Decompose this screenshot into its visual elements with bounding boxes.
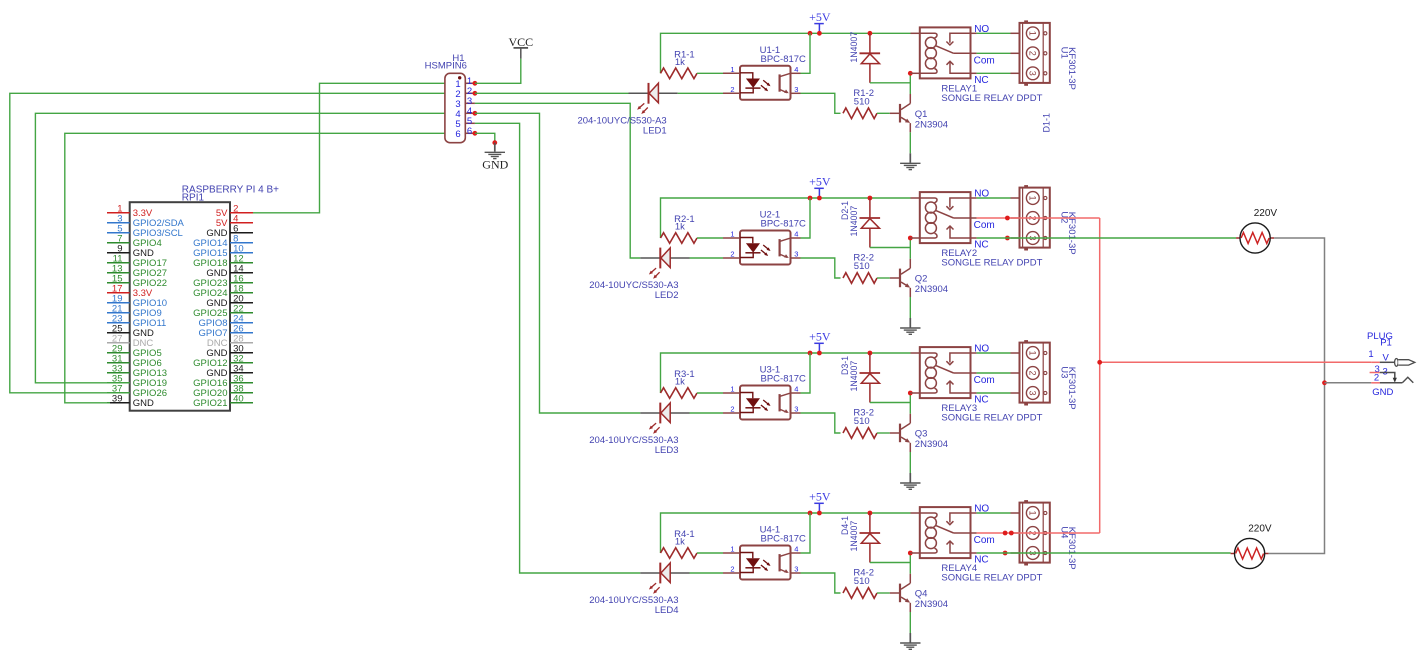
wire diode to collector xyxy=(870,402,910,404)
wire opto pin3 to R2 xyxy=(801,573,841,593)
wire relay NO to terminal xyxy=(977,512,1011,514)
svg-text:HSMPIN6: HSMPIN6 xyxy=(425,61,467,72)
junction +5V rail xyxy=(817,31,822,36)
svg-text:4: 4 xyxy=(794,230,798,239)
op-amp U3-1 BPC-817C optocoupler xyxy=(723,365,806,420)
diode 1N4007 1N4007 flyback xyxy=(849,32,880,83)
wire opto pin4 to rail xyxy=(801,198,811,238)
connector U3 KF301-3P xyxy=(1011,340,1078,409)
junction +5V rail xyxy=(817,511,822,516)
wire relay Com to terminal xyxy=(977,372,1011,374)
wire +5V rail channel 2 xyxy=(661,198,911,238)
wire emitter to ground xyxy=(909,132,911,153)
svg-text:LED3: LED3 xyxy=(655,445,679,456)
connector U1 KF301-3P xyxy=(1011,20,1078,89)
wire Com bus channel2 xyxy=(977,217,1100,219)
wire collector xyxy=(909,393,911,414)
svg-text:1k: 1k xyxy=(675,377,685,388)
svg-text:Com: Com xyxy=(974,535,995,546)
svg-text:NC: NC xyxy=(974,75,988,86)
junction Com terminal ch4 b xyxy=(1009,531,1014,536)
wire LED to opto pin2 xyxy=(690,412,724,414)
svg-text:Q3: Q3 xyxy=(915,429,928,440)
svg-text:6: 6 xyxy=(455,129,460,140)
transistor Q4 2N3904 xyxy=(890,574,948,612)
svg-text:40: 40 xyxy=(233,394,244,405)
LED LED3 204-10UYC/S530-A3 xyxy=(589,403,689,456)
svg-text:SONGLE RELAY DPDT: SONGLE RELAY DPDT xyxy=(941,573,1042,584)
svg-text:Q2: Q2 xyxy=(915,274,928,285)
svg-text:1k: 1k xyxy=(675,537,685,548)
wire opto pin4 to rail xyxy=(801,513,811,553)
wire Com bus channel4 xyxy=(977,532,1100,534)
svg-text:Com: Com xyxy=(974,220,995,231)
relay RELAY3 SONGLE RELAY DPDT xyxy=(910,347,1042,423)
ground GND under H1 xyxy=(482,143,508,172)
wire opto pin4 to rail xyxy=(801,33,811,73)
wire H1 pin3 to LED2 xyxy=(475,103,640,258)
svg-text:220V: 220V xyxy=(1254,208,1278,219)
junction H1 pin1 xyxy=(473,81,478,86)
svg-text:KF301-3P: KF301-3P xyxy=(1066,367,1077,410)
svg-text:SONGLE RELAY DPDT: SONGLE RELAY DPDT xyxy=(941,93,1042,104)
wire collector xyxy=(909,238,911,259)
power flag +5V channel 1 xyxy=(809,10,831,32)
svg-text:BPC-817C: BPC-817C xyxy=(761,534,807,545)
transistor Q1 2N3904 xyxy=(890,94,948,132)
svg-text:3: 3 xyxy=(794,250,798,259)
resistor R3-1 1k xyxy=(661,369,698,398)
connector H1 HSMPIN6 xyxy=(425,53,475,143)
svg-text:3: 3 xyxy=(1028,390,1038,395)
diode D3-1 1N4007 flyback xyxy=(840,353,880,403)
svg-text:KF301-3P: KF301-3P xyxy=(1066,47,1077,90)
wire load2 to gray bus xyxy=(1269,383,1325,554)
svg-text:LED4: LED4 xyxy=(655,605,679,616)
junction Com terminal ch2 a xyxy=(1005,216,1010,221)
wire R to opto pin1 xyxy=(697,552,723,554)
svg-text:2: 2 xyxy=(1028,370,1038,375)
wire LED to opto pin2 xyxy=(690,257,724,259)
svg-text:510: 510 xyxy=(854,416,870,427)
junction collector coil xyxy=(908,236,913,241)
lamp load 2 220V xyxy=(1231,523,1272,568)
wire opto pin3 to R2 xyxy=(801,413,841,433)
power flag +5V channel 3 xyxy=(809,330,831,352)
svg-text:P1: P1 xyxy=(1380,337,1392,348)
svg-text:1k: 1k xyxy=(675,57,685,68)
junction H1 GND xyxy=(492,140,497,145)
wire relay Com to terminal xyxy=(977,52,1011,54)
svg-text:GND: GND xyxy=(133,398,154,409)
svg-text:GND: GND xyxy=(1372,387,1393,398)
junction diode rail xyxy=(868,511,873,516)
wire H1 pin2 to LED1 xyxy=(475,92,629,94)
resistor R3-2 510 xyxy=(843,408,877,439)
svg-text:1N4007: 1N4007 xyxy=(849,361,859,392)
junction pin4 rail xyxy=(808,511,813,516)
svg-text:SONGLE RELAY DPDT: SONGLE RELAY DPDT xyxy=(941,258,1042,269)
wire opto pin3 to R2 xyxy=(801,93,841,113)
wire R to opto pin1 xyxy=(697,72,723,74)
wire R2 to base xyxy=(877,112,890,114)
wire collector xyxy=(909,73,911,94)
svg-text:SONGLE RELAY DPDT: SONGLE RELAY DPDT xyxy=(941,413,1042,424)
svg-text:RPI1: RPI1 xyxy=(182,193,205,204)
LED LED2 204-10UYC/S530-A3 xyxy=(589,248,689,301)
junction pin4 rail xyxy=(808,196,813,201)
wire emitter to ground xyxy=(909,297,911,318)
wire relay NC to terminal xyxy=(977,72,1011,74)
wire Com bus vertical xyxy=(1099,218,1101,533)
LED LED4 204-10UYC/S530-A3 xyxy=(589,563,689,616)
wire H1 pin4 to LED3 xyxy=(475,113,640,413)
svg-text:1N4007: 1N4007 xyxy=(849,32,859,63)
svg-text:BPC-817C: BPC-817C xyxy=(761,219,807,230)
junction +5V rail xyxy=(817,196,822,201)
svg-text:GPIO21: GPIO21 xyxy=(193,398,227,409)
svg-text:2: 2 xyxy=(730,250,734,259)
ground channel 2 xyxy=(900,318,920,334)
op-amp U4-1 BPC-817C optocoupler xyxy=(723,525,806,580)
relay RELAY4 SONGLE RELAY DPDT xyxy=(910,507,1042,583)
svg-text:Q1: Q1 xyxy=(915,109,928,120)
ground channel 3 xyxy=(900,473,920,489)
svg-text:NC: NC xyxy=(974,555,988,566)
junction diode rail xyxy=(868,31,873,36)
svg-text:LED1: LED1 xyxy=(643,125,667,136)
power flag VCC xyxy=(508,35,533,59)
svg-text:NC: NC xyxy=(974,240,988,251)
connector U2 KF301-3P xyxy=(1011,185,1078,254)
svg-text:3: 3 xyxy=(794,405,798,414)
wire opto pin4 to rail xyxy=(801,353,811,393)
wire H1 pin6 to GND xyxy=(475,133,495,142)
svg-text:BPC-817C: BPC-817C xyxy=(761,374,807,385)
svg-text:1: 1 xyxy=(1028,510,1038,515)
wire R to opto pin1 xyxy=(697,237,723,239)
transistor Q2 2N3904 xyxy=(890,259,948,297)
junction diode rail xyxy=(868,351,873,356)
wire diode to collector xyxy=(870,247,910,249)
wire R to opto pin1 xyxy=(697,392,723,394)
svg-text:2N3904: 2N3904 xyxy=(915,439,948,450)
wire emitter to ground xyxy=(909,452,911,473)
wire relay NC to terminal xyxy=(977,392,1011,394)
resistor R1-1 1k xyxy=(661,49,698,78)
svg-text:1: 1 xyxy=(730,385,734,394)
ground channel 4 xyxy=(900,633,920,649)
svg-text:3: 3 xyxy=(1028,71,1038,76)
svg-text:1: 1 xyxy=(1028,350,1038,355)
wire gray bus to plug xyxy=(1325,382,1372,384)
svg-text:BPC-817C: BPC-817C xyxy=(761,54,807,65)
connector plug P1 xyxy=(1367,331,1415,398)
svg-text:4: 4 xyxy=(794,385,798,394)
svg-text:Com: Com xyxy=(974,375,995,386)
wire LED to opto pin2 xyxy=(690,572,724,574)
svg-text:VCC: VCC xyxy=(508,35,533,49)
wire +5V rail channel 3 xyxy=(661,353,911,393)
svg-text:4: 4 xyxy=(794,65,798,74)
wire V bus to plug xyxy=(1100,361,1372,363)
svg-text:+5V: +5V xyxy=(809,10,831,24)
wire relay NO to terminal xyxy=(977,352,1011,354)
svg-text:1: 1 xyxy=(730,545,734,554)
wire emitter to ground xyxy=(909,612,911,633)
svg-text:1k: 1k xyxy=(675,222,685,233)
svg-text:1: 1 xyxy=(1368,349,1373,360)
resistor R4-1 1k xyxy=(661,529,698,558)
op-amp U1-1 BPC-817C optocoupler xyxy=(723,45,806,100)
wire H1 pin6 to RPI pin39 GND xyxy=(65,133,475,403)
junction pin4 rail xyxy=(808,351,813,356)
junction diode rail xyxy=(868,196,873,201)
resistor R4-2 510 xyxy=(843,568,877,599)
svg-text:1N4007: 1N4007 xyxy=(849,521,859,552)
wire H1 pin4 to RPI pin35 GPIO19 xyxy=(35,113,475,383)
wire H1 pin5 to LED4 xyxy=(475,123,640,573)
svg-text:1: 1 xyxy=(1028,195,1038,200)
svg-text:+5V: +5V xyxy=(809,175,831,189)
svg-text:2N3904: 2N3904 xyxy=(915,284,948,295)
wire opto pin3 to R2 xyxy=(801,258,841,278)
svg-text:+5V: +5V xyxy=(809,490,831,504)
diode D2-1 1N4007 flyback xyxy=(840,198,880,248)
connector U4 KF301-3P xyxy=(1011,500,1078,569)
junction collector coil xyxy=(908,551,913,556)
transistor Q3 2N3904 xyxy=(890,414,948,452)
svg-text:2N3904: 2N3904 xyxy=(915,599,948,610)
svg-text:1: 1 xyxy=(730,65,734,74)
svg-text:NC: NC xyxy=(974,395,988,406)
wire R2 to base xyxy=(877,592,890,594)
wire NC ch2 to load1 xyxy=(977,237,1237,239)
junction V bus xyxy=(1097,360,1102,365)
svg-text:510: 510 xyxy=(854,576,870,587)
wire R2 to base xyxy=(877,432,890,434)
wire VCC to H1 pin1 xyxy=(475,59,521,84)
svg-text:+5V: +5V xyxy=(809,330,831,344)
wire H1 pin2 to RPI pin37 GPIO26 xyxy=(10,93,475,393)
ground channel 1 xyxy=(900,153,920,169)
junction +5V rail xyxy=(817,351,822,356)
svg-text:Com: Com xyxy=(974,55,995,66)
relay RELAY2 SONGLE RELAY DPDT xyxy=(910,192,1042,268)
wire R2 to base xyxy=(877,277,890,279)
LED LED1 204-10UYC/S530-A3 xyxy=(577,83,677,136)
svg-text:LED2: LED2 xyxy=(655,290,679,301)
svg-text:39: 39 xyxy=(112,394,123,405)
svg-text:D1-1: D1-1 xyxy=(1042,113,1052,133)
resistor R1-2 510 xyxy=(843,88,877,119)
wire relay NO to terminal xyxy=(977,197,1011,199)
wire diode to collector xyxy=(870,82,910,84)
junction H1 pin6 xyxy=(473,131,478,136)
resistor R2-1 1k xyxy=(661,214,698,243)
wire +5V rail channel 1 xyxy=(661,33,911,73)
junction collector coil xyxy=(908,391,913,396)
svg-text:GND: GND xyxy=(482,158,508,172)
svg-text:2N3904: 2N3904 xyxy=(915,119,948,130)
connector RPI1 RASPBERRY PI 4 B+ xyxy=(107,185,279,411)
svg-text:220V: 220V xyxy=(1248,523,1272,534)
svg-text:1: 1 xyxy=(1028,31,1038,36)
power flag +5V channel 4 xyxy=(809,490,831,512)
junction Com terminal ch4 a xyxy=(1003,531,1008,536)
wire collector xyxy=(909,553,911,574)
wire NC ch4 to load2 xyxy=(977,552,1231,554)
op-amp U2-1 BPC-817C optocoupler xyxy=(723,210,806,265)
junction H1 pin4 xyxy=(473,111,478,116)
junction H1 pin2 xyxy=(473,91,478,96)
resistor R2-2 510 xyxy=(843,253,877,284)
wire RPI pin2 5V to H1 pin1 xyxy=(253,83,475,213)
svg-text:4: 4 xyxy=(794,545,798,554)
svg-text:2: 2 xyxy=(730,565,734,574)
junction gray bus xyxy=(1322,380,1327,385)
svg-text:2: 2 xyxy=(1028,51,1038,56)
wire +5V rail channel 4 xyxy=(661,513,911,553)
svg-text:3: 3 xyxy=(794,85,798,94)
svg-text:510: 510 xyxy=(854,261,870,272)
wire diode to collector xyxy=(870,562,910,564)
power flag +5V channel 2 xyxy=(809,175,831,197)
svg-text:2: 2 xyxy=(730,85,734,94)
svg-text:3: 3 xyxy=(794,565,798,574)
svg-text:1N4007: 1N4007 xyxy=(849,206,859,237)
svg-text:1: 1 xyxy=(730,230,734,239)
wire relay NO to terminal xyxy=(977,32,1011,34)
wire load1 to gray bus xyxy=(1274,238,1324,383)
svg-text:Q4: Q4 xyxy=(915,589,928,600)
svg-text:2: 2 xyxy=(730,405,734,414)
wire LED to opto pin2 xyxy=(678,92,723,94)
diode D4-1 1N4007 flyback xyxy=(840,513,880,563)
svg-text:510: 510 xyxy=(854,96,870,107)
junction NC terminal ch2 a xyxy=(1005,236,1010,241)
lamp load 1 220V xyxy=(1236,208,1277,253)
junction NC terminal ch4 a xyxy=(1003,551,1008,556)
junction pin4 rail xyxy=(808,31,813,36)
relay RELAY1 SONGLE RELAY DPDT xyxy=(910,27,1042,103)
junction collector coil xyxy=(908,71,913,76)
svg-text:6: 6 xyxy=(467,126,472,137)
